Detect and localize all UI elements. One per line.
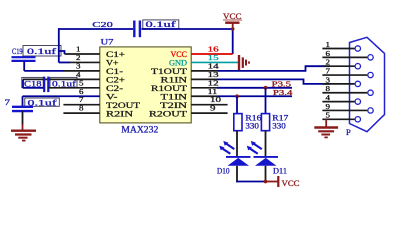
pin 9 stub R2OUT [191,104,227,114]
DB9 pin 3 [322,76,360,86]
pin 8 stub R2IN [63,104,99,114]
U7 pin name labels (right column) [149,49,188,118]
svg-text:7: 7 [5,97,11,107]
svg-text:8: 8 [326,85,331,93]
svg-text:9: 9 [210,104,216,113]
pin 15 GND wire [191,53,238,63]
capacitor C17 [5,96,34,129]
svg-text:5: 5 [326,112,331,120]
svg-text:8: 8 [79,104,84,113]
ground DB9 [314,128,338,138]
wire D10 down to rail [236,166,238,183]
power port VCC top [223,12,242,29]
junction dot row12 to R17 [264,86,268,90]
resistor R16 [234,114,262,131]
svg-text:6: 6 [326,50,331,58]
pin 7 stub T2OUT [63,95,99,105]
svg-text:P3.5: P3.5 [272,81,292,89]
ground under C17 [11,131,36,141]
junction dot row11 to R16 [235,94,239,98]
pin 16 VCC wire [191,45,233,55]
svg-text:R2OUT: R2OUT [149,108,188,118]
DB9 pin 8 [322,85,373,95]
svg-text:330: 330 [245,122,259,131]
pin 11 T1IN wire, net label P3.4 [191,87,293,97]
wire rail to VCC port [266,181,278,183]
capacitor C20 value box [143,20,179,29]
pin 4 wire C2+ [23,70,100,88]
svg-text:2: 2 [326,59,331,67]
svg-text:0.1uf: 0.1uf [27,47,57,56]
pin 2 wire V+ [59,53,100,63]
capacitor C18 [23,77,48,93]
DB9 pin 6 [322,50,373,60]
DB9 pin 2 [322,59,360,69]
svg-text:7: 7 [326,67,331,75]
connector P DB9 outline [346,37,385,137]
LED D11 [247,141,287,176]
svg-text:VCC: VCC [282,179,300,188]
junction dot VCC riser corner [231,27,235,31]
pin 12 R1OUT wire, net label P3.5 [191,78,292,88]
svg-text:1: 1 [326,41,331,49]
power port VCC bottom [278,176,299,188]
wire DB9 pin5 to ground [325,119,327,127]
pin 5 wire C2- [48,78,100,88]
pin 6 wire V- [23,87,100,97]
DB9 pin 4 [322,94,360,104]
capacitor C18 label and value boxes [22,77,77,88]
DB9 pin 1 [322,41,360,51]
DB9 pin 7 [322,67,373,77]
pin 1 wire and jog from C20 net [59,45,100,55]
pin 14 T1OUT wire to DB9 pin 2 [191,61,330,71]
IC U7 MAX232 body [100,38,191,135]
wire row11 down to R16 [236,96,238,113]
svg-text:4: 4 [326,94,331,102]
DB9 pin 9 [322,103,373,113]
U7 pin name labels (left column) [106,49,141,118]
ground sideways at pin 15 [239,55,249,70]
wire R17 to D11 [265,131,267,157]
svg-text:P3.4: P3.4 [273,89,293,97]
wire bottom rail [236,181,265,183]
svg-text:D11: D11 [273,167,287,176]
svg-text:U7: U7 [101,38,114,47]
pin 10 stub T2IN [191,95,227,105]
wire row12 down to R17 [265,88,267,114]
wire D11 down to rail [265,166,267,183]
capacitor C19 value box [23,46,61,57]
svg-text:3: 3 [326,76,331,84]
resistor R17 [261,114,288,131]
svg-text:C20: C20 [92,20,113,29]
wire VCC riser [232,29,234,54]
svg-text:D10: D10 [217,167,230,176]
pin 3 wire C1- from C19 [24,61,100,71]
LED D10 [217,141,251,176]
pin 13 R1IN wire to DB9 pin 3 [191,70,330,84]
capacitor C17 value box [25,98,60,107]
svg-text:0.1uf: 0.1uf [146,20,177,29]
junction dot rail at D11 [264,180,268,184]
capacitor C20 [92,20,140,37]
wire R16 to D10 [236,131,238,157]
DB9 pin 5 [322,112,360,122]
svg-text:P: P [346,127,351,137]
capacitor C19 [12,46,36,71]
wire C20 net (V+ to VCC riser) [59,29,233,62]
svg-text:MAX232: MAX232 [121,125,158,135]
svg-text:C19: C19 [12,46,23,56]
svg-text:9: 9 [326,103,331,111]
svg-text:R2IN: R2IN [106,108,133,118]
svg-text:330: 330 [272,122,286,131]
